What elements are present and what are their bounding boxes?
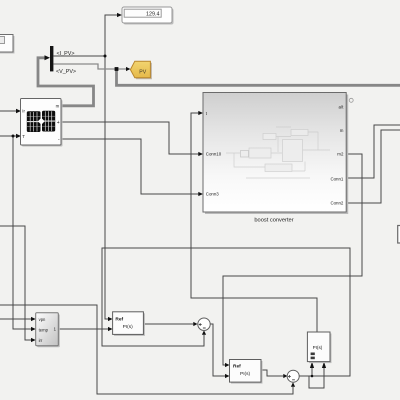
svg-text:+: + [57, 120, 60, 126]
svg-text:irr: irr [39, 338, 43, 343]
svg-text:PI(s): PI(s) [313, 345, 323, 350]
svg-text:PV: PV [139, 70, 146, 76]
svg-text:Conn3: Conn3 [206, 192, 219, 197]
svg-text:PI(s): PI(s) [123, 324, 134, 330]
svg-text:temp: temp [39, 327, 49, 332]
svg-text:boost converter: boost converter [254, 217, 293, 223]
svg-text:<V_PV>: <V_PV> [56, 69, 76, 75]
svg-text:PI(s): PI(s) [240, 371, 251, 377]
svg-text:vpn: vpn [39, 317, 46, 322]
svg-text:Conn2: Conn2 [330, 200, 343, 205]
svg-text:Conn1: Conn1 [330, 176, 343, 181]
svg-text:<I_PV>: <I_PV> [57, 51, 75, 57]
svg-text:Ref: Ref [233, 363, 241, 369]
svg-text:m: m [56, 103, 60, 108]
svg-text:m: m [340, 128, 344, 133]
svg-text:Conn10: Conn10 [206, 151, 222, 156]
svg-text:129.4: 129.4 [146, 12, 160, 18]
svg-text:T: T [22, 134, 25, 139]
svg-text:a/t: a/t [339, 104, 345, 109]
svg-text:Ref: Ref [115, 317, 123, 323]
svg-text:m2: m2 [337, 151, 344, 156]
